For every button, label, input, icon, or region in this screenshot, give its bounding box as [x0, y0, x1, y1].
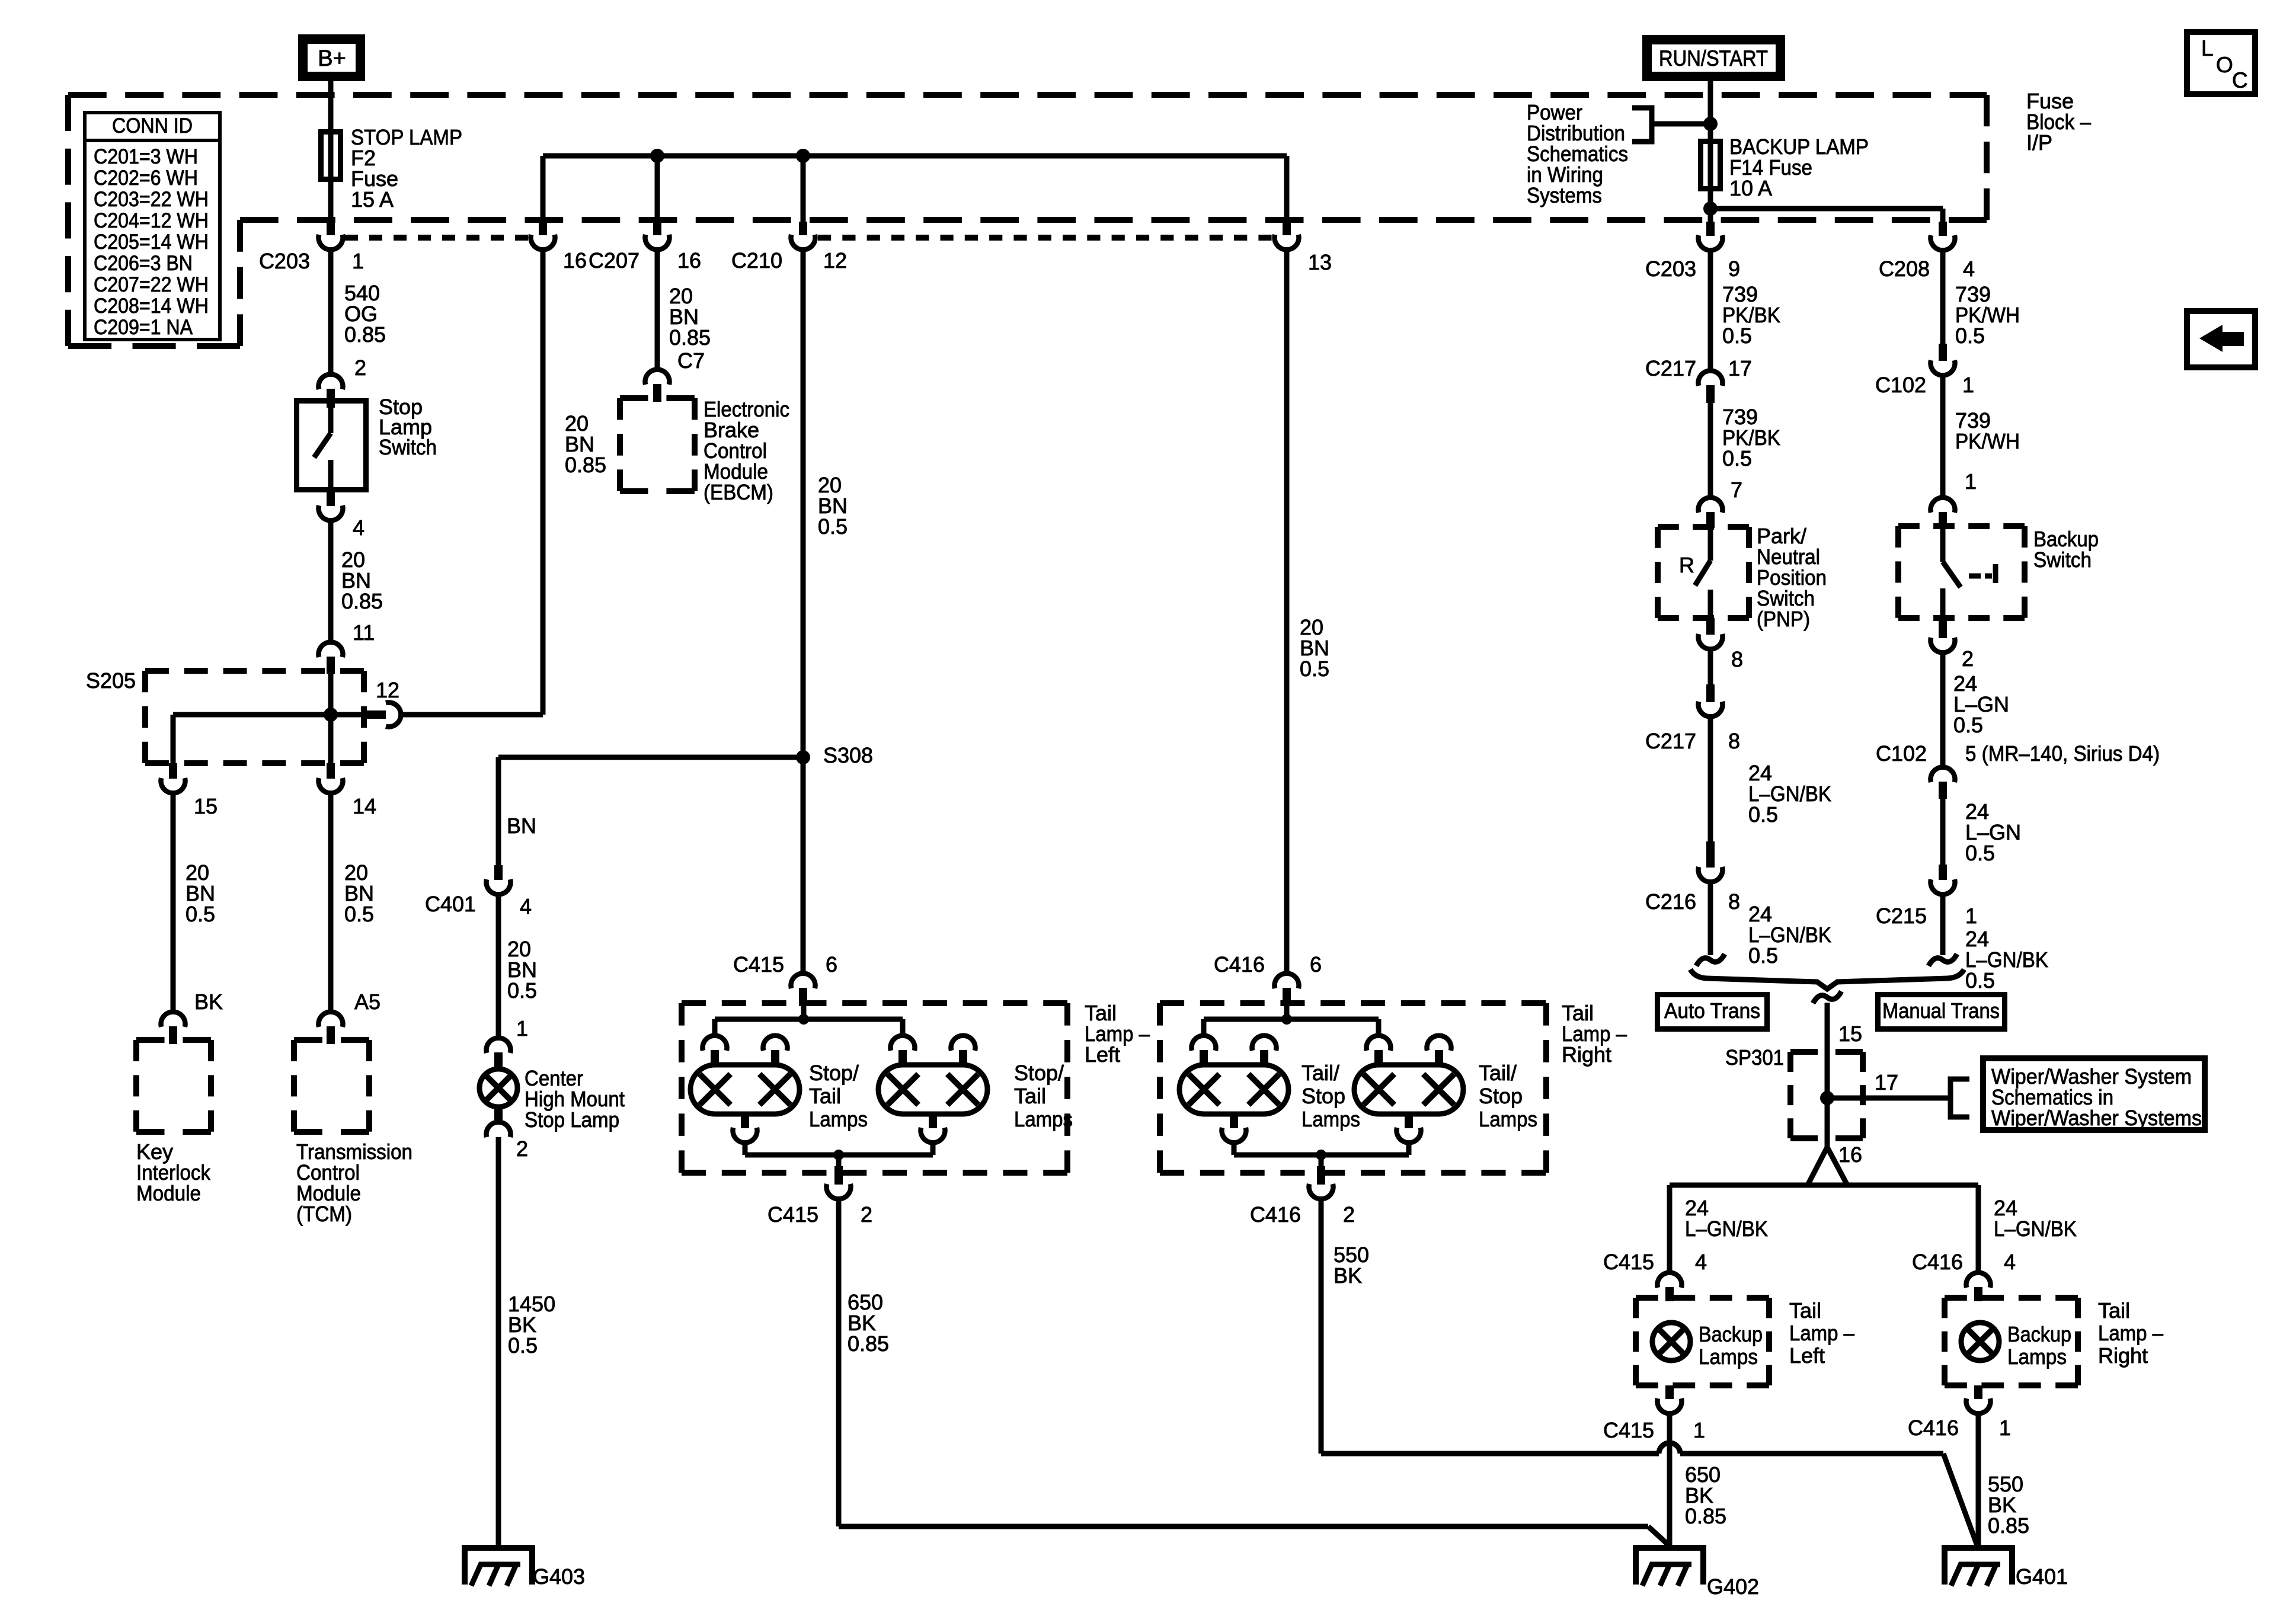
svg-text:5 (MR–140, Sirius D4): 5 (MR–140, Sirius D4): [1965, 741, 2160, 766]
svg-text:Lamps: Lamps: [2007, 1345, 2067, 1369]
svg-text:C216: C216: [1645, 889, 1696, 914]
svg-text:C401: C401: [425, 892, 476, 916]
svg-text:10 A: 10 A: [1729, 176, 1772, 200]
svg-text:C201=3 WH: C201=3 WH: [94, 145, 198, 168]
svg-text:0.85: 0.85: [344, 322, 386, 347]
svg-text:Lamps: Lamps: [1479, 1107, 1537, 1131]
svg-text:A5: A5: [354, 990, 380, 1014]
svg-text:0.5: 0.5: [1965, 841, 1995, 865]
svg-text:0.85: 0.85: [1988, 1513, 2029, 1538]
svg-text:Tail: Tail: [809, 1084, 841, 1108]
svg-text:6: 6: [826, 952, 837, 977]
svg-text:4: 4: [520, 894, 532, 918]
svg-text:17: 17: [1875, 1070, 1898, 1094]
svg-text:Lamps: Lamps: [1699, 1345, 1758, 1369]
svg-text:Left: Left: [1085, 1042, 1120, 1067]
svg-text:15 A: 15 A: [351, 187, 394, 212]
svg-text:0.5: 0.5: [1300, 657, 1329, 681]
svg-text:0.5: 0.5: [1722, 324, 1752, 348]
svg-text:2: 2: [1962, 646, 1974, 671]
svg-text:0.85: 0.85: [565, 453, 606, 477]
svg-text:C208: C208: [1879, 257, 1930, 281]
svg-text:Lamp –: Lamp –: [2098, 1321, 2163, 1345]
svg-text:Tail: Tail: [1789, 1298, 1821, 1323]
svg-text:C416: C416: [1912, 1250, 1963, 1274]
svg-text:13: 13: [1308, 250, 1332, 274]
svg-text:Stop/: Stop/: [1014, 1061, 1064, 1085]
svg-text:G403: G403: [533, 1564, 585, 1589]
svg-text:C207: C207: [589, 248, 639, 273]
svg-text:C415: C415: [1603, 1418, 1654, 1442]
svg-text:I/P: I/P: [2026, 130, 2052, 155]
svg-text:C204=12 WH: C204=12 WH: [94, 209, 209, 232]
svg-text:0.5: 0.5: [1748, 802, 1778, 827]
svg-text:Lamps: Lamps: [1302, 1107, 1360, 1131]
svg-text:1: 1: [1965, 904, 1977, 928]
svg-text:0.5: 0.5: [1722, 446, 1752, 470]
svg-text:C210: C210: [731, 248, 782, 273]
svg-text:0.5: 0.5: [1953, 713, 1983, 737]
svg-text:8: 8: [1728, 889, 1740, 914]
svg-text:15: 15: [194, 794, 218, 818]
svg-text:2: 2: [861, 1202, 872, 1227]
svg-text:Tail: Tail: [2098, 1298, 2130, 1323]
svg-text:Backup: Backup: [2007, 1322, 2071, 1346]
svg-text:16: 16: [677, 248, 701, 273]
svg-text:Systems: Systems: [1527, 183, 1602, 207]
svg-text:1: 1: [516, 1016, 528, 1041]
svg-text:C207=22 WH: C207=22 WH: [94, 273, 209, 296]
svg-text:16: 16: [563, 248, 587, 273]
svg-text:Wiper/Washer Systems: Wiper/Washer Systems: [1991, 1106, 2202, 1130]
svg-text:R: R: [1679, 553, 1694, 577]
svg-text:C102: C102: [1875, 373, 1926, 397]
svg-text:14: 14: [353, 794, 376, 818]
svg-text:0.5: 0.5: [508, 1333, 538, 1358]
svg-text:G402: G402: [1707, 1574, 1759, 1599]
svg-text:9: 9: [1728, 257, 1740, 281]
svg-text:C416: C416: [1908, 1416, 1959, 1440]
svg-text:0.5: 0.5: [1955, 324, 1985, 348]
svg-text:12: 12: [823, 248, 847, 273]
svg-text:Module: Module: [136, 1181, 201, 1205]
svg-text:C202=6 WH: C202=6 WH: [94, 167, 198, 190]
svg-text:C415: C415: [733, 952, 784, 977]
svg-text:L–GN/BK: L–GN/BK: [1685, 1217, 1768, 1241]
svg-text:C416: C416: [1250, 1202, 1301, 1227]
svg-text:Tail/: Tail/: [1302, 1061, 1339, 1085]
svg-text:1: 1: [1962, 373, 1974, 397]
svg-text:C203: C203: [1645, 257, 1696, 281]
svg-text:0.5: 0.5: [1748, 943, 1778, 968]
svg-text:0.85: 0.85: [669, 325, 711, 350]
svg-text:8: 8: [1731, 647, 1743, 671]
svg-text:O: O: [2216, 53, 2233, 77]
svg-text:Backup: Backup: [1699, 1322, 1763, 1346]
svg-text:C203: C203: [259, 249, 310, 273]
svg-text:2: 2: [1343, 1202, 1355, 1227]
svg-text:L–GN/BK: L–GN/BK: [1994, 1217, 2077, 1241]
svg-text:(EBCM): (EBCM): [703, 480, 773, 504]
svg-text:C415: C415: [1603, 1250, 1654, 1274]
svg-text:Tail: Tail: [1014, 1084, 1046, 1108]
svg-text:4: 4: [2004, 1250, 2016, 1274]
svg-text:CONN ID: CONN ID: [112, 114, 193, 137]
svg-text:12: 12: [376, 678, 399, 702]
svg-text:1: 1: [1999, 1416, 2011, 1440]
svg-text:C208=14 WH: C208=14 WH: [94, 295, 209, 318]
svg-text:RUN/START: RUN/START: [1659, 46, 1768, 71]
svg-text:Left: Left: [1789, 1343, 1825, 1368]
svg-text:Right: Right: [2098, 1343, 2148, 1368]
svg-text:(TCM): (TCM): [296, 1202, 352, 1226]
svg-text:Lamp –: Lamp –: [1789, 1321, 1854, 1345]
svg-text:6: 6: [1310, 952, 1322, 977]
svg-text:0.85: 0.85: [848, 1331, 889, 1356]
svg-text:Switch: Switch: [2033, 548, 2092, 572]
svg-text:C215: C215: [1876, 904, 1927, 928]
svg-text:1: 1: [1693, 1418, 1705, 1442]
svg-text:2: 2: [354, 356, 366, 380]
svg-text:PK/WH: PK/WH: [1955, 429, 2020, 453]
svg-text:Stop/: Stop/: [809, 1061, 859, 1085]
svg-text:Stop: Stop: [1302, 1084, 1345, 1108]
svg-text:C102: C102: [1876, 741, 1927, 766]
svg-text:Right: Right: [1562, 1042, 1611, 1067]
svg-text:C205=14 WH: C205=14 WH: [94, 231, 209, 254]
svg-text:0.85: 0.85: [1685, 1504, 1726, 1528]
svg-text:Lamps: Lamps: [1014, 1107, 1073, 1131]
svg-text:BK: BK: [1334, 1263, 1362, 1288]
svg-text:Tail/: Tail/: [1479, 1061, 1517, 1085]
svg-text:C217: C217: [1645, 729, 1696, 753]
svg-text:15: 15: [1838, 1022, 1862, 1046]
svg-text:16: 16: [1838, 1142, 1862, 1167]
svg-text:S205: S205: [86, 668, 136, 693]
svg-text:L: L: [2201, 36, 2214, 60]
svg-text:Auto Trans: Auto Trans: [1664, 998, 1760, 1023]
svg-text:S308: S308: [823, 743, 873, 767]
svg-text:C7: C7: [677, 348, 705, 373]
svg-text:C206=3 BN: C206=3 BN: [94, 252, 193, 275]
svg-text:G401: G401: [2016, 1564, 2068, 1589]
svg-text:Manual Trans: Manual Trans: [1882, 998, 2000, 1023]
svg-text:0.5: 0.5: [507, 978, 537, 1003]
svg-text:SP301: SP301: [1725, 1045, 1784, 1070]
svg-text:C: C: [2232, 68, 2248, 92]
svg-text:(PNP): (PNP): [1757, 607, 1810, 631]
svg-text:Stop Lamp: Stop Lamp: [525, 1108, 619, 1132]
svg-text:Lamps: Lamps: [809, 1107, 868, 1131]
svg-text:Stop: Stop: [1479, 1084, 1523, 1108]
svg-text:4: 4: [1963, 257, 1975, 281]
svg-text:C209=1 NA: C209=1 NA: [94, 316, 193, 339]
svg-text:8: 8: [1728, 729, 1740, 753]
svg-text:17: 17: [1728, 356, 1752, 380]
svg-text:C203=22 WH: C203=22 WH: [94, 188, 209, 211]
svg-text:0.5: 0.5: [186, 902, 215, 926]
svg-text:BK: BK: [194, 990, 223, 1014]
svg-text:4: 4: [353, 516, 364, 540]
svg-text:Switch: Switch: [379, 435, 437, 459]
svg-text:0.85: 0.85: [341, 589, 383, 613]
svg-text:B+: B+: [318, 46, 346, 71]
svg-text:1: 1: [352, 249, 364, 273]
svg-text:C217: C217: [1645, 356, 1696, 380]
svg-text:11: 11: [353, 620, 375, 645]
svg-text:BN: BN: [507, 814, 536, 838]
svg-text:C416: C416: [1214, 952, 1265, 977]
svg-text:C415: C415: [768, 1202, 818, 1227]
svg-text:0.5: 0.5: [1965, 968, 1995, 993]
svg-text:4: 4: [1695, 1250, 1707, 1274]
svg-text:0.5: 0.5: [344, 902, 374, 926]
svg-text:1: 1: [1965, 469, 1977, 494]
svg-text:7: 7: [1731, 478, 1742, 502]
svg-text:0.5: 0.5: [818, 514, 848, 539]
svg-text:2: 2: [516, 1137, 528, 1161]
